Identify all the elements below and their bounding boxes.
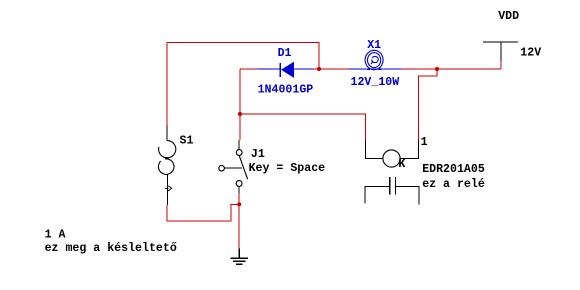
switch S1 top lead [166, 125, 168, 141]
junction diode-top rail [317, 67, 321, 71]
svg-text:EDR201A05: EDR201A05 [422, 163, 485, 176]
svg-text:Key = Space: Key = Space [249, 162, 326, 175]
switch J1 bottom stub [238, 186, 240, 193]
svg-text:S1: S1 [180, 134, 194, 147]
switch J1 top terminal circle [236, 150, 242, 156]
relay coil circle K [383, 150, 400, 167]
diode D1 cathode bar [279, 63, 281, 77]
wire left vertical down to S1 [166, 42, 168, 125]
switch S1 lower hook [158, 159, 174, 175]
VDD power symbol [483, 42, 518, 61]
svg-text:1N4001GP: 1N4001GP [258, 84, 314, 97]
switch S1 cusp blob [165, 157, 169, 159]
svg-text:K: K [398, 158, 405, 171]
wire lamp to VDD segment [402, 68, 501, 70]
wire middle horizontal to relay coil [240, 114, 366, 141]
svg-text:X1: X1 [367, 39, 381, 52]
switch J1 pole line [224, 167, 241, 169]
relay coil left stub [366, 141, 384, 159]
svg-text:1 A: 1 A [45, 229, 66, 242]
wire VDD stem red part [500, 61, 502, 69]
wire left drop from diode row [239, 69, 241, 114]
switch J1 left terminal circle [219, 165, 225, 171]
relay contact left lead [365, 187, 389, 204]
wire bottom rail to S1 [167, 204, 239, 221]
wire down to J1 top [239, 114, 241, 140]
diode D1 leads [257, 68, 314, 70]
relay contact left plate [389, 177, 391, 195]
switch J1 top stub [238, 140, 240, 150]
wire top rail from S1 top to diode junction [167, 42, 319, 69]
relay coil right stub [400, 141, 419, 159]
switch J1 bottom terminal circle [236, 181, 242, 187]
svg-text:ez a relé: ez a relé [422, 178, 485, 191]
switch S1 upper hook right half [167, 141, 176, 158]
wire diode to lamp segment [314, 68, 349, 70]
svg-text:J1: J1 [251, 148, 265, 161]
relay contact right lead [396, 187, 420, 205]
svg-text:12V: 12V [520, 46, 541, 59]
ground symbol [230, 249, 248, 265]
wire diode row left segment [240, 68, 257, 70]
svg-text:D1: D1 [278, 47, 292, 60]
switch J1 blade [239, 156, 247, 180]
svg-text:ez meg a késleltető: ez meg a késleltető [45, 242, 177, 255]
junction left drop / middle horizontal [238, 112, 242, 116]
svg-text:12V_10W: 12V_10W [351, 76, 400, 89]
wire relay coil right dogleg [419, 69, 437, 141]
svg-text:1: 1 [421, 136, 428, 149]
wire J1 bottom down [238, 194, 240, 205]
junction J1 bottom / ground [237, 202, 241, 206]
switch S1 upper hook left piece [159, 147, 168, 158]
svg-text:VDD: VDD [498, 10, 519, 23]
diode D1 triangle [281, 62, 294, 78]
junction lamp-VDD rail [435, 67, 439, 71]
wire ground drop [238, 204, 240, 248]
lamp X1 spiral body [365, 50, 383, 69]
lamp X1 lead line [348, 68, 402, 70]
switch S1 arrow [165, 186, 172, 191]
relay contact right plate [395, 177, 397, 195]
switch S1 bottom lead [166, 174, 168, 204]
